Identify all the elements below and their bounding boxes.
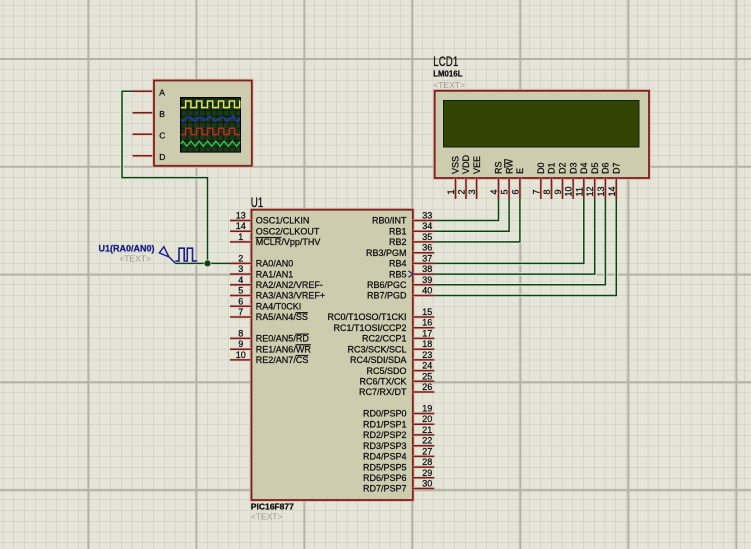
svg-text:RD3/PSP3: RD3/PSP3: [363, 441, 407, 451]
U1 pin 5 RA3/AN3/VREF+ stub: [230, 294, 252, 297]
svg-text:6: 6: [238, 296, 243, 306]
svg-text:RA0/AN0: RA0/AN0: [256, 259, 294, 269]
svg-text:8: 8: [238, 328, 243, 338]
wire RB6 to LCD D6: [434, 199, 605, 285]
U1 pin 19 RD0 stub: [413, 412, 435, 415]
U1 pin 13 OSC1/CLKIN stub: [230, 219, 252, 222]
svg-text:RW: RW: [504, 159, 514, 174]
svg-text:RB3/PGM: RB3/PGM: [366, 248, 407, 258]
U1 pin 2 RA0/AN0 stub: [230, 262, 252, 265]
U1 pin 7 RA5/AN4/SS stub: [230, 316, 252, 319]
svg-text:RC0/T1OSO/T1CKI: RC0/T1OSO/T1CKI: [327, 312, 406, 322]
generator horn symbol: [159, 247, 175, 264]
wire RB2 to LCD E: [434, 199, 520, 242]
svg-text:26: 26: [422, 382, 432, 392]
scope pin A stub: [133, 90, 155, 93]
U1 right pin names: [327, 216, 407, 494]
svg-text:RD0/PSP0: RD0/PSP0: [363, 409, 407, 419]
U1 pin 25 RC6 stub: [413, 380, 435, 383]
svg-text:D3: D3: [568, 162, 578, 174]
U1 pin 16 RC1 stub: [413, 326, 435, 329]
svg-text:40: 40: [422, 286, 432, 296]
svg-text:38: 38: [422, 264, 432, 274]
LCD1 pin 8 D1 stub: [550, 178, 553, 199]
svg-text:2: 2: [238, 253, 243, 263]
svg-text:10: 10: [564, 186, 574, 196]
svg-text:RA5/AN4/SS: RA5/AN4/SS: [256, 312, 308, 322]
svg-text:1: 1: [238, 232, 243, 242]
LCD1 pin 3 VEE stub: [475, 178, 478, 199]
svg-text:1: 1: [446, 189, 456, 194]
svg-text:5: 5: [500, 189, 510, 194]
LCD1 pin 7 D0 stub: [539, 178, 542, 199]
svg-text:7: 7: [531, 189, 541, 194]
svg-text:C: C: [159, 130, 165, 140]
svg-text:23: 23: [422, 350, 432, 360]
scope screen: [181, 98, 241, 153]
U1 pin 20 RD1 stub: [413, 423, 435, 426]
microcontroller U1 PIC16F877: [251, 195, 413, 522]
svg-text:24: 24: [422, 361, 432, 371]
trace channel A yellow: [181, 101, 240, 108]
LCD1 pin 4 RS stub: [497, 178, 500, 199]
svg-text:9: 9: [553, 189, 563, 194]
svg-text:RA1/AN1: RA1/AN1: [256, 269, 294, 279]
U1 pin 22 RD3 stub: [413, 444, 435, 447]
svg-text:39: 39: [422, 275, 432, 285]
svg-text:VEE: VEE: [472, 156, 482, 174]
svg-text:4: 4: [489, 189, 499, 194]
svg-text:RD6/PSP6: RD6/PSP6: [363, 473, 407, 483]
U1 pin 6 RA4/T0CKI stub: [230, 305, 252, 308]
svg-text:RB6/PGC: RB6/PGC: [367, 280, 407, 290]
svg-text:RC6/TX/CK: RC6/TX/CK: [359, 377, 406, 387]
LCD1 pin 11 D4 stub: [582, 178, 585, 199]
U1 right pin stubs: [413, 221, 435, 489]
svg-text:VSS: VSS: [451, 156, 461, 174]
svg-text:<TEXT>: <TEXT>: [433, 80, 465, 90]
LCD1 pin 9 D2 stub: [561, 178, 564, 199]
U1 pin 39 RB6/PGC stub: [413, 283, 435, 286]
svg-text:14: 14: [607, 186, 617, 196]
U1 pin 30 RD7 stub: [413, 487, 435, 490]
wire generator to pin2 RA0/AN0: [176, 262, 232, 265]
svg-text:29: 29: [422, 468, 432, 478]
U1 pin 26 RC7 stub: [413, 391, 435, 394]
U1 pin 38 RB5 stub: [413, 273, 435, 276]
svg-text:12: 12: [585, 186, 595, 196]
svg-text:5: 5: [238, 286, 243, 296]
LCD1 pin 13 D6 stub: [604, 178, 607, 199]
LCD1 pin 5 RW stub: [508, 178, 511, 199]
RB5 bus entry marker: [408, 271, 412, 278]
svg-text:B: B: [159, 109, 165, 119]
svg-text:RB7/PGD: RB7/PGD: [367, 291, 407, 301]
svg-text:RD7/PSP7: RD7/PSP7: [363, 484, 407, 494]
U1 left pin stubs: [230, 221, 252, 360]
svg-text:OSC1/CLKIN: OSC1/CLKIN: [256, 216, 310, 226]
trace channel C red: [181, 128, 240, 134]
LCD screen: [444, 101, 640, 148]
svg-text:15: 15: [422, 307, 432, 317]
U1 pin 37 RB4 stub: [413, 262, 435, 265]
svg-text:19: 19: [422, 404, 432, 414]
svg-text:6: 6: [510, 189, 520, 194]
wire RB5 to LCD D5: [434, 199, 594, 274]
svg-text:21: 21: [422, 425, 432, 435]
svg-text:20: 20: [422, 414, 432, 424]
LCD pin name labels: [451, 154, 622, 174]
svg-text:3: 3: [467, 189, 477, 194]
scope body: [154, 81, 252, 166]
U1 pin 23 RC4 stub: [413, 358, 435, 361]
U1 pin 21 RD2 stub: [413, 433, 435, 436]
svg-text:RC4/SDI/SDA: RC4/SDI/SDA: [350, 355, 407, 365]
trace channel D green: [181, 141, 240, 146]
svg-text:17: 17: [422, 328, 432, 338]
svg-text:33: 33: [422, 211, 432, 221]
svg-text:30: 30: [422, 479, 432, 489]
svg-text:RC3/SCK/SCL: RC3/SCK/SCL: [347, 344, 406, 354]
U1 pin 29 RD6 stub: [413, 476, 435, 479]
svg-text:3: 3: [238, 264, 243, 274]
U1 pin 35 RB2 stub: [413, 240, 435, 243]
svg-text:D: D: [159, 152, 165, 162]
svg-text:RB0/INT: RB0/INT: [372, 216, 407, 226]
svg-text:13: 13: [596, 186, 606, 196]
svg-text:35: 35: [422, 232, 432, 242]
pulse generator U1(RA0/AN0): [98, 244, 197, 264]
svg-text:RC2/CCP1: RC2/CCP1: [362, 334, 407, 344]
svg-text:34: 34: [422, 221, 432, 231]
LCD1 pin 1 VSS stub: [454, 178, 457, 199]
U1 pin 17 RC2 stub: [413, 337, 435, 340]
U1 pin 3 RA1/AN1 stub: [230, 273, 252, 276]
svg-text:RE2/AN7/CS: RE2/AN7/CS: [256, 355, 309, 365]
wire RB0 to LCD RS: [434, 199, 498, 221]
svg-text:8: 8: [542, 189, 552, 194]
svg-text:36: 36: [422, 243, 432, 253]
generator pulse glyph: [175, 248, 197, 261]
U1 pin 36 RB3/PGM stub: [413, 251, 435, 254]
U1 pin 10 RE2/AN7/CS stub: [230, 358, 252, 361]
LCD pin numbers 1-14: [446, 186, 617, 196]
wire scope-A to RA0 junction: [122, 91, 208, 263]
svg-text:2: 2: [457, 189, 467, 194]
svg-text:14: 14: [236, 221, 246, 231]
svg-text:RS: RS: [494, 161, 504, 174]
svg-text:MCLR/Vpp/THV: MCLR/Vpp/THV: [256, 237, 321, 247]
U1 pin 8 RE0/AN5/RD stub: [230, 337, 252, 340]
U1 pin 9 RE1/AN6/WR stub: [230, 348, 252, 351]
svg-text:RA2/AN2/VREF-: RA2/AN2/VREF-: [256, 280, 323, 290]
wire RB7 to LCD D7: [434, 199, 616, 296]
svg-text:RB5: RB5: [389, 269, 407, 279]
svg-text:RD5/PSP5: RD5/PSP5: [363, 462, 407, 472]
U1 pin 33 RB0/INT stub: [413, 219, 435, 222]
scope pin C stub: [133, 133, 155, 136]
svg-text:D1: D1: [547, 162, 557, 174]
svg-text:E: E: [515, 168, 525, 174]
U1 pin 24 RC5 stub: [413, 369, 435, 372]
LCD1 pin 10 D3 stub: [572, 178, 575, 199]
svg-text:RA3/AN3/VREF+: RA3/AN3/VREF+: [256, 291, 325, 301]
svg-text:D4: D4: [579, 162, 589, 174]
U1 right pin numbers: [422, 211, 432, 489]
LCD1 pin 2 VDD stub: [465, 178, 468, 199]
svg-text:D0: D0: [536, 162, 546, 174]
svg-text:RD2/PSP2: RD2/PSP2: [363, 430, 407, 440]
LCD body: [435, 91, 649, 178]
scope pin B stub: [133, 111, 155, 114]
svg-text:A: A: [159, 87, 165, 97]
svg-text:RB2: RB2: [389, 237, 407, 247]
svg-text:25: 25: [422, 371, 432, 381]
wire RB1 to LCD RW: [434, 199, 509, 231]
svg-text:RD4/PSP4: RD4/PSP4: [363, 452, 407, 462]
svg-text:9: 9: [238, 339, 243, 349]
U1 left pin names: [256, 216, 325, 365]
svg-text:11: 11: [574, 187, 584, 196]
svg-text:PIC16F877: PIC16F877: [251, 502, 294, 512]
svg-text:22: 22: [422, 436, 432, 446]
scope channel labels: [159, 87, 165, 161]
U1 pin 18 RC3 stub: [413, 348, 435, 351]
svg-text:VDD: VDD: [461, 154, 471, 174]
svg-text:RC7/RX/DT: RC7/RX/DT: [359, 387, 407, 397]
scope pin D stub: [133, 154, 155, 157]
LCD1 pin 12 D5 stub: [593, 178, 596, 199]
svg-text:28: 28: [422, 457, 432, 467]
svg-text:13: 13: [236, 211, 246, 221]
svg-text:37: 37: [422, 253, 432, 263]
U1 left pin numbers: [236, 211, 246, 360]
svg-text:RD1/PSP1: RD1/PSP1: [363, 419, 407, 429]
U1 pin 28 RD5 stub: [413, 466, 435, 469]
svg-text:7: 7: [238, 307, 243, 317]
U1 pin 14 OSC2/CLKOUT stub: [230, 230, 252, 233]
svg-text:LCD1: LCD1: [433, 54, 458, 69]
U1 pin 34 RB1 stub: [413, 230, 435, 233]
svg-text:27: 27: [422, 446, 432, 456]
U1 pin 1 MCLR stub: [230, 240, 252, 243]
svg-text:<TEXT>: <TEXT>: [251, 512, 283, 522]
U1 pin 27 RD4 stub: [413, 455, 435, 458]
svg-text:D7: D7: [612, 162, 622, 174]
U1 body: [252, 210, 413, 500]
svg-text:10: 10: [236, 350, 246, 360]
svg-text:RA4/T0CKI: RA4/T0CKI: [256, 302, 302, 312]
U1 pin 15 RC0 stub: [413, 316, 435, 319]
svg-text:18: 18: [422, 339, 432, 349]
wire RB4 to LCD D4: [434, 199, 584, 263]
U1 pin 40 RB7/PGD stub: [413, 294, 435, 297]
junction RA0 node: [204, 260, 212, 268]
svg-text:RE1/AN6/WR: RE1/AN6/WR: [256, 344, 312, 354]
svg-text:OSC2/CLKOUT: OSC2/CLKOUT: [256, 226, 320, 236]
svg-text:RB1: RB1: [389, 226, 407, 236]
svg-text:D2: D2: [558, 162, 568, 174]
U1 pin 4 RA2/AN2/VREF- stub: [230, 283, 252, 286]
LCD1 component: [433, 54, 649, 178]
svg-text:4: 4: [238, 275, 243, 285]
LCD1 pin 6 E stub: [518, 178, 521, 199]
trace channel B blue: [181, 116, 240, 122]
svg-text:D6: D6: [601, 162, 611, 174]
LCD pin stubs 1-14: [456, 178, 617, 199]
svg-text:D5: D5: [590, 162, 600, 174]
LCD1 pin 14 D7 stub: [615, 178, 618, 199]
svg-text:<TEXT>: <TEXT>: [119, 254, 151, 264]
svg-text:RC5/SDO: RC5/SDO: [366, 366, 406, 376]
oscilloscope: [133, 81, 252, 166]
svg-text:RE0/AN5/RD: RE0/AN5/RD: [256, 334, 310, 344]
svg-text:RC1/T1OSI/CCP2: RC1/T1OSI/CCP2: [333, 323, 406, 333]
svg-text:U1(RA0/AN0): U1(RA0/AN0): [98, 244, 154, 254]
svg-text:16: 16: [422, 318, 432, 328]
svg-text:RB4: RB4: [389, 259, 407, 269]
svg-text:LM016L: LM016L: [433, 70, 462, 79]
